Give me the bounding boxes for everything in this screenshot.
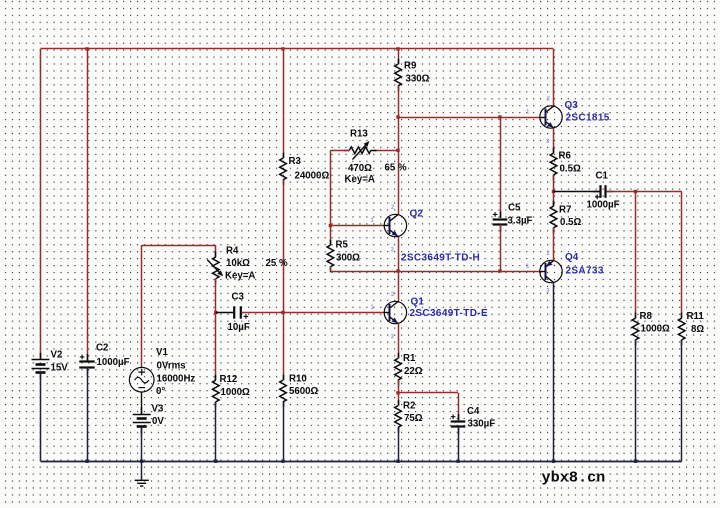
svg-text:V3: V3 (152, 404, 164, 415)
resistor R12 (213, 380, 220, 402)
ground (135, 479, 149, 481)
junction R13 wiper node (396, 149, 399, 152)
svg-text:2SA733: 2SA733 (566, 266, 604, 277)
svg-text:Key=A: Key=A (225, 271, 255, 282)
resistor R11 (678, 318, 685, 340)
svg-text:10µF: 10µF (228, 322, 250, 333)
svg-text:2SC3649T-TD-E: 2SC3649T-TD-E (410, 308, 488, 319)
svg-text:R13: R13 (350, 129, 368, 140)
junction rail R8 (634, 460, 637, 463)
wire R13 left drop (330, 150, 332, 225)
svg-text:C2: C2 (96, 343, 108, 354)
transistor Q4 (540, 260, 562, 282)
wire C1 right lead (607, 191, 636, 193)
svg-text:1000µF: 1000µF (97, 357, 130, 368)
wire R3 bottom riser (283, 180, 285, 313)
junction rail Q4 (552, 460, 555, 463)
resistor R9 (395, 64, 402, 86)
svg-text:V1: V1 (156, 347, 168, 358)
svg-text:15V: 15V (51, 363, 69, 374)
wire top rail right drop to Q3 collector (553, 49, 555, 107)
capacitor C1 (599, 185, 601, 198)
wire R7 top lead (553, 192, 555, 207)
svg-text:V2: V2 (51, 350, 63, 361)
wire C5 bottom lead (500, 225, 502, 271)
wire R4 top lead (215, 245, 217, 257)
junction C1 R8 node (634, 190, 637, 193)
wire Q4 emitter to ground rail (553, 282, 555, 461)
wire C2 bottom to rail (87, 367, 89, 461)
resistor R1 (395, 358, 402, 380)
junction R4 C3 R12 node (214, 311, 217, 314)
wire output to C1 left (554, 191, 601, 193)
wire emitter net horizontal (330, 271, 539, 273)
wire Q1 emitter lead (398, 323, 400, 358)
svg-text:300Ω: 300Ω (336, 253, 360, 264)
wire to Q2 base (330, 225, 384, 227)
resistor R2 (395, 406, 402, 428)
svg-text:10kΩ: 10kΩ (226, 258, 250, 269)
svg-text:75Ω: 75Ω (404, 413, 423, 424)
svg-text:R11: R11 (687, 311, 705, 322)
resistor R13 potentiometer (349, 147, 371, 154)
svg-text:2SC1815: 2SC1815 (566, 113, 610, 124)
wire R1R2 node to C4 (398, 392, 458, 394)
svg-text:R5: R5 (336, 240, 349, 251)
resistor R7 (550, 206, 557, 228)
svg-text:330µF: 330µF (468, 419, 496, 430)
wire R12 bottom to rail (215, 402, 217, 461)
resistor R5 (327, 245, 334, 267)
svg-text:R12: R12 (220, 374, 238, 385)
svg-text:0°: 0° (156, 386, 165, 397)
wire R3 top riser (283, 49, 285, 158)
wire R5 top lead (330, 226, 332, 246)
wire R11 top riser (681, 192, 683, 319)
svg-text:8Ω: 8Ω (691, 324, 704, 335)
wire R9 top lead (398, 49, 400, 64)
arrow R13 wiper (353, 145, 366, 159)
svg-text:2SC3649T-TD-H: 2SC3649T-TD-H (401, 253, 480, 264)
wire R4 bottom lead (215, 279, 217, 313)
junction rail C2 (85, 460, 88, 463)
svg-text:C5: C5 (508, 203, 521, 214)
junction top rail R3 (281, 47, 284, 50)
wire C3 to Q1 base (242, 312, 384, 314)
wire R12 top riser (215, 313, 217, 381)
capacitor C3 (233, 306, 235, 318)
wire R13 right lead (373, 150, 398, 152)
resistor R8 (632, 318, 639, 340)
svg-text:16000Hz: 16000Hz (157, 374, 196, 385)
junction rail R2 (396, 460, 399, 463)
wire R11 bottom to rail (681, 340, 683, 461)
wire C4 bottom to rail (458, 427, 460, 461)
wire R13 left lead (330, 150, 349, 152)
svg-text:0V: 0V (152, 416, 164, 427)
svg-text:Q2: Q2 (410, 209, 424, 220)
wire R6 bottom to output node (553, 175, 555, 192)
resistor R4 potentiometer (213, 257, 220, 279)
junction R9 Q3-base node (396, 115, 399, 118)
wire R7 bottom lead (553, 228, 555, 261)
svg-text:1000Ω: 1000Ω (221, 387, 251, 398)
wire R5 bottom lead (330, 267, 332, 271)
wire top supply rail (41, 48, 554, 50)
svg-text:R7: R7 (559, 205, 571, 216)
wire C5 top lead (500, 117, 502, 218)
wire Q2 collector riser (398, 117, 400, 214)
capacitor C2 (79, 360, 94, 362)
svg-text:22Ω: 22Ω (404, 366, 423, 377)
svg-text:Q1: Q1 (411, 297, 425, 308)
wire R8 top riser (635, 192, 637, 319)
wire Q1 collector lead (398, 271, 400, 302)
junction C5 bottom (498, 269, 501, 272)
transistor Q1 (384, 301, 406, 323)
junction top rail R9 (396, 47, 399, 50)
svg-text:R2: R2 (403, 401, 415, 412)
junction R5 top node (329, 224, 332, 227)
wire V2 bottom to rail (40, 372, 42, 461)
wire R2 bottom to rail (398, 427, 400, 461)
wire V1 to V3 (141, 392, 143, 414)
wire Q3 emitter lead (553, 128, 555, 153)
wire R10 bottom to rail (283, 402, 285, 461)
svg-text:0.5Ω: 0.5Ω (560, 217, 581, 228)
svg-text:65 %: 65 % (385, 163, 407, 174)
junction rail C4 (456, 460, 459, 463)
junction top rail C2 (85, 47, 88, 50)
svg-text:24000Ω: 24000Ω (295, 171, 330, 182)
svg-text:R8: R8 (640, 311, 653, 322)
wire R9 bottom to Q3 base node (398, 86, 400, 117)
wire V1 top riser (141, 245, 143, 367)
wire ground rail (41, 461, 682, 463)
svg-text:25 %: 25 % (266, 258, 288, 269)
junction Q2-emitter Q1-collector (396, 269, 399, 272)
junction rail R12 (214, 460, 217, 463)
wire Q2 collector node to Q3 base (398, 117, 540, 119)
wire R2 top lead (398, 393, 400, 406)
svg-text:R10: R10 (289, 374, 307, 385)
svg-text:Key=A: Key=A (345, 174, 375, 185)
svg-text:1000µF: 1000µF (587, 200, 620, 211)
wire V3 bottom through rail to ground (141, 427, 143, 480)
transistor Q2 (384, 214, 406, 236)
wire R8 bottom to rail (635, 340, 637, 461)
resistor R10 (280, 380, 287, 402)
capacitor C5 (493, 218, 508, 220)
wire V2 top riser (40, 49, 42, 360)
resistor R3 (280, 158, 287, 180)
svg-text:3.3µF: 3.3µF (508, 216, 533, 227)
svg-text:0Vrms: 0Vrms (157, 361, 186, 372)
junction V3 rail (140, 460, 143, 463)
svg-text:R9: R9 (404, 61, 417, 72)
svg-text:Q3: Q3 (565, 100, 579, 111)
capacitor C4 (451, 420, 466, 422)
junction rail R10 (281, 460, 284, 463)
svg-text:470Ω: 470Ω (348, 163, 372, 174)
svg-text:ybx8.cn: ybx8.cn (542, 469, 606, 487)
svg-text:C1: C1 (596, 171, 609, 182)
resistor R6 (550, 153, 557, 175)
junction output node (552, 190, 555, 193)
wire V1 to R4 horizontal (142, 245, 216, 247)
svg-text:Q4: Q4 (565, 252, 579, 263)
battery V2 (32, 359, 50, 361)
svg-text:R1: R1 (403, 353, 416, 364)
junction C3 wire R3 column (281, 311, 284, 314)
svg-text:R4: R4 (226, 246, 239, 257)
battery V3 (133, 414, 151, 416)
arrow R4 wiper (207, 260, 219, 273)
transistor Q3 (540, 106, 562, 128)
wire C2 top riser (87, 49, 89, 361)
svg-text:C4: C4 (467, 406, 480, 417)
wire C3 left lead (216, 312, 233, 314)
svg-text:1000Ω: 1000Ω (641, 324, 671, 335)
svg-text:330Ω: 330Ω (406, 74, 430, 85)
wire C4 top lead (458, 393, 460, 420)
svg-text:5600Ω: 5600Ω (289, 386, 319, 397)
wire R1 bottom lead (398, 380, 400, 393)
svg-text:R3: R3 (289, 156, 302, 167)
AC source V1 (129, 367, 154, 392)
wire R10 top riser (283, 313, 285, 381)
junction R1 R2 C4 node (396, 391, 399, 394)
svg-text:R6: R6 (559, 151, 572, 162)
svg-text:C3: C3 (232, 292, 245, 303)
wire to R11 branch (636, 191, 682, 193)
wire Q2 emitter lead (398, 236, 400, 271)
junction C5 tap on Q3 base wire (498, 115, 501, 118)
svg-text:0.5Ω: 0.5Ω (560, 164, 581, 175)
